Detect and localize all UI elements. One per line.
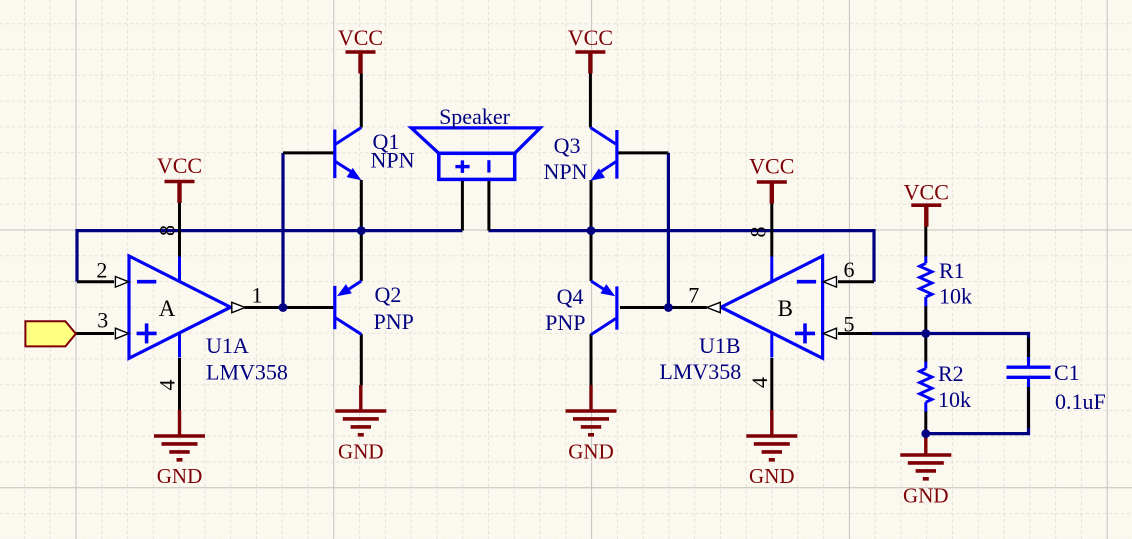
svg-text:U1A: U1A <box>206 333 249 358</box>
svg-text:R2: R2 <box>938 361 964 386</box>
wire: R1 to divider node <box>924 306 927 334</box>
power VCC above U1B pin 8 <box>749 154 794 204</box>
ground GND below Q4 <box>566 385 617 464</box>
svg-text:Speaker: Speaker <box>439 104 511 129</box>
wire: VCC to Q3 collector <box>589 74 592 128</box>
wire: U1A pin 4 to ground <box>178 358 181 411</box>
svg-text:Q2: Q2 <box>375 282 402 307</box>
transistor Q2 <box>333 281 361 334</box>
transistor Q1 <box>333 128 361 181</box>
svg-text:U1B: U1B <box>699 333 741 358</box>
wire: U1A output pin 1 to Q1/Q2 bases <box>245 306 335 309</box>
wire: VCC to Q1 collector <box>360 74 363 128</box>
junction: Q1/Q2 emitters on left bus <box>357 226 366 235</box>
svg-text:NPN: NPN <box>371 148 415 173</box>
pin 1 arrow <box>232 302 245 312</box>
svg-text:0.1uF: 0.1uF <box>1055 389 1106 414</box>
wire: speaker pin - lead <box>487 180 490 231</box>
svg-text:GND: GND <box>338 440 384 464</box>
wire: U1B output pin 7 to Q3/Q4 bases <box>620 306 707 309</box>
svg-text:GND: GND <box>903 483 949 507</box>
svg-text:R1: R1 <box>939 258 965 283</box>
svg-text:GND: GND <box>568 440 614 464</box>
svg-text:A: A <box>159 296 176 321</box>
svg-text:10k: 10k <box>939 284 972 309</box>
svg-text:LMV358: LMV358 <box>206 360 288 385</box>
svg-text:6: 6 <box>844 257 855 282</box>
transistor Q3 <box>590 128 618 181</box>
power VCC above Q1 <box>338 25 383 74</box>
svg-text:Q4: Q4 <box>557 284 584 309</box>
svg-text:8: 8 <box>746 227 771 238</box>
wire: R2 to ground node <box>924 411 927 434</box>
wire: C1 bottom lead <box>1027 381 1030 428</box>
capacitor C1 <box>1007 357 1051 387</box>
svg-text:C1: C1 <box>1054 360 1080 385</box>
power VCC above R1 <box>904 180 949 227</box>
junction: U1B output / Q3-Q4 bases <box>664 303 673 312</box>
svg-text:7: 7 <box>688 283 699 308</box>
wire: Q2 collector to ground <box>360 334 363 386</box>
svg-text:10k: 10k <box>938 387 971 412</box>
pin 2 arrow <box>115 277 128 288</box>
junction: U1A output / Q1-Q2 bases <box>279 303 288 312</box>
wire: VCC to U1A pin 8 <box>178 203 181 257</box>
ground GND below Q2 <box>335 385 386 464</box>
wire: VCC to R1 <box>924 227 927 258</box>
pin 5 arrow <box>823 328 836 339</box>
pin 7 arrow <box>707 302 721 312</box>
wire: VCC to U1B pin 8 <box>770 203 773 257</box>
wire: C1 bottom to R2 bottom / ground node <box>926 382 1029 434</box>
svg-text:PNP: PNP <box>545 310 585 335</box>
node IN: yellow input tag <box>25 321 75 346</box>
wire: Q3/Q4 base vertical from U1B output node <box>667 153 670 308</box>
wire: right output net bus (speaker -) with feedback to pin 6 <box>489 231 875 282</box>
wire: C1 top lead <box>1027 338 1030 359</box>
svg-text:NPN: NPN <box>543 159 587 184</box>
svg-text:VCC: VCC <box>338 25 383 50</box>
svg-text:8: 8 <box>154 225 179 236</box>
pin 6 arrow <box>823 277 836 288</box>
svg-text:VCC: VCC <box>749 154 794 179</box>
transistor Q4 <box>591 281 619 335</box>
ground GND below R2 <box>900 429 951 507</box>
svg-text:3: 3 <box>97 308 108 333</box>
wire: Q1 emitter to output bus <box>360 180 363 231</box>
resistor R2 <box>924 362 927 369</box>
junction: R2 bottom / C1 bottom / GND <box>921 429 930 438</box>
wire: Q3 base <box>618 151 668 154</box>
speaker LS1 symbol <box>411 128 540 180</box>
svg-text:B: B <box>778 296 793 321</box>
junction: divider node / pin 5 <box>921 329 930 338</box>
junction: Q3/Q4 emitters on right bus <box>587 226 596 235</box>
wire: Q1 base <box>283 151 334 154</box>
ground GND below U1B pin 4 <box>746 410 797 488</box>
power VCC above U1A pin 8 <box>157 153 202 203</box>
wire: output bus to Q2 emitter <box>360 231 363 281</box>
power VCC above Q3 <box>568 25 613 74</box>
wire: Q4 collector to ground <box>590 334 593 386</box>
wire: pin 2 stub <box>77 280 114 283</box>
svg-text:Q3: Q3 <box>554 133 581 158</box>
wire: input tag to pin 3 <box>76 332 114 335</box>
svg-text:5: 5 <box>844 312 855 337</box>
resistor R1 <box>924 256 927 263</box>
wire: ground node stub <box>924 434 927 439</box>
wire: Q3 emitter to output bus <box>590 180 593 231</box>
svg-text:PNP: PNP <box>374 309 414 334</box>
svg-text:GND: GND <box>749 464 795 488</box>
wire: pin 6 stub <box>838 280 874 283</box>
wire: pin 5 node to R1/R2 divider and C1 top <box>871 334 1029 363</box>
wire: pin 5 to divider <box>838 332 872 335</box>
wire: speaker pin + lead <box>461 180 464 231</box>
wire: left output net bus (speaker +) with feedback to pin 2 <box>77 231 462 282</box>
wire: divider node to R2 <box>924 334 927 363</box>
op-amp U1A triangle <box>129 256 231 358</box>
svg-text:1: 1 <box>252 283 263 308</box>
wire: output bus to Q4 emitter <box>590 231 593 281</box>
svg-text:4: 4 <box>155 380 180 391</box>
svg-text:VCC: VCC <box>904 180 949 205</box>
ground GND below U1A pin 4 <box>154 410 205 488</box>
svg-text:VCC: VCC <box>568 25 613 50</box>
svg-text:GND: GND <box>157 464 203 488</box>
svg-text:4: 4 <box>747 377 772 388</box>
op-amp U1B triangle <box>721 256 823 358</box>
wire: U1B pin 4 to ground <box>770 358 773 411</box>
pin 3 arrow <box>115 328 128 339</box>
svg-text:VCC: VCC <box>157 153 202 178</box>
svg-text:LMV358: LMV358 <box>659 359 741 384</box>
wire: Q1/Q2 base vertical from U1A output node <box>281 153 284 308</box>
svg-text:2: 2 <box>96 257 107 282</box>
